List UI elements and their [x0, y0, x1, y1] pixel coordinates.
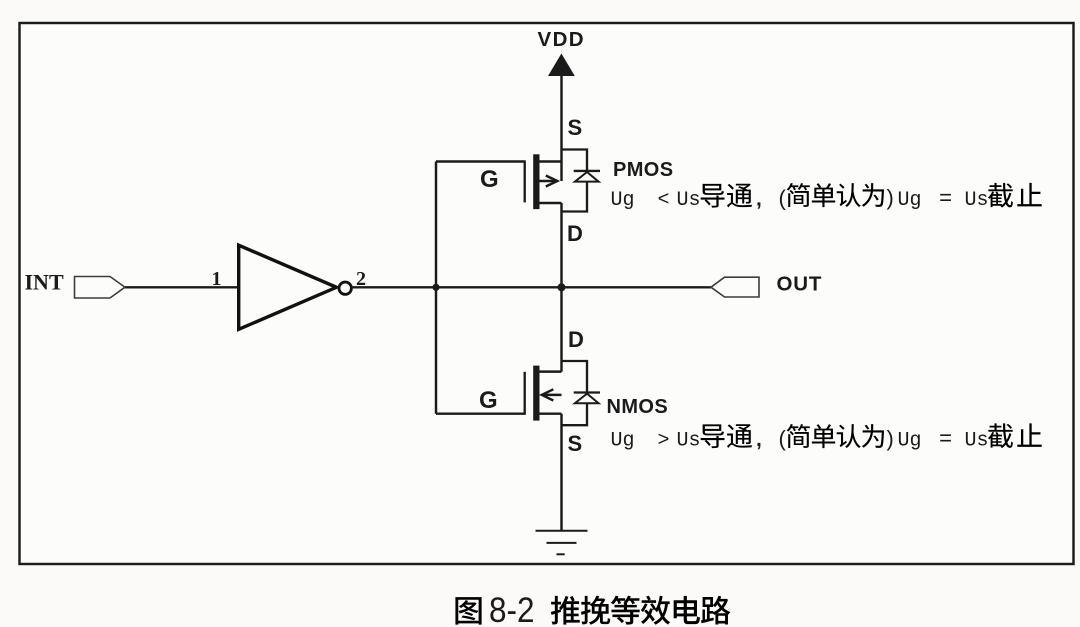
body diode of PMOS — [562, 150, 601, 212]
svg-text:=: = — [939, 428, 952, 453]
svg-text:<: < — [658, 189, 670, 212]
svg-text:,: , — [756, 188, 762, 211]
wire PMOS drain to output node — [560, 203, 562, 372]
wire gate bus vertical — [435, 162, 437, 414]
svg-text:S: S — [568, 431, 583, 456]
caption 图 8-2 推挽等效电路 — [455, 592, 730, 627]
wire INT to inverter input — [125, 286, 238, 288]
svg-text:Ug: Ug — [611, 430, 635, 453]
junction on gate bus — [432, 284, 439, 291]
svg-text:Ug: Ug — [898, 430, 922, 453]
svg-text:Ug: Ug — [898, 189, 922, 212]
svg-text:INT: INT — [25, 270, 64, 295]
inverter U1 — [239, 245, 352, 329]
wire inverter output to output node — [352, 286, 712, 288]
svg-text:PMOS: PMOS — [613, 159, 674, 181]
svg-text:NMOS: NMOS — [607, 396, 669, 418]
svg-text:,: , — [756, 428, 762, 451]
port INT — [25, 270, 126, 299]
svg-text:): ) — [887, 185, 894, 210]
svg-text:>: > — [658, 430, 670, 453]
power symbol VDD — [538, 28, 585, 76]
svg-text:D: D — [567, 221, 583, 246]
svg-text:Us: Us — [677, 189, 701, 212]
port OUT — [711, 273, 822, 298]
wire to NMOS gate — [436, 412, 525, 414]
svg-text:S: S — [568, 115, 583, 140]
svg-text:(: ( — [779, 426, 787, 451]
svg-text:1: 1 — [212, 268, 222, 290]
svg-text:Us: Us — [965, 430, 989, 453]
wire to PMOS gate — [436, 160, 525, 162]
note PMOS condition: Ug < Us 导通,(简单认为)Ug = Us 截止 — [611, 183, 1042, 212]
wire VDD to PMOS source — [560, 75, 562, 181]
svg-text:Ug: Ug — [611, 189, 635, 212]
transistor PMOS — [525, 154, 562, 209]
svg-text:): ) — [887, 426, 894, 451]
svg-text:G: G — [480, 166, 499, 193]
wire NMOS source to ground — [560, 414, 562, 530]
svg-text:Us: Us — [965, 189, 989, 212]
svg-text:G: G — [479, 387, 498, 414]
ground — [536, 531, 588, 555]
transistor NMOS — [525, 366, 562, 421]
body diode of NMOS — [562, 361, 601, 425]
svg-text:=: = — [939, 187, 952, 212]
svg-text:D: D — [568, 327, 584, 352]
svg-text:(: ( — [779, 186, 787, 211]
note NMOS condition: Ug > Us 导通,(简单认为)Ug = Us 截止 — [611, 423, 1042, 452]
svg-text:Us: Us — [677, 430, 701, 453]
svg-text:VDD: VDD — [538, 28, 585, 51]
svg-text:OUT: OUT — [777, 273, 823, 296]
svg-text:8-2: 8-2 — [489, 592, 535, 627]
junction output node — [558, 283, 566, 291]
